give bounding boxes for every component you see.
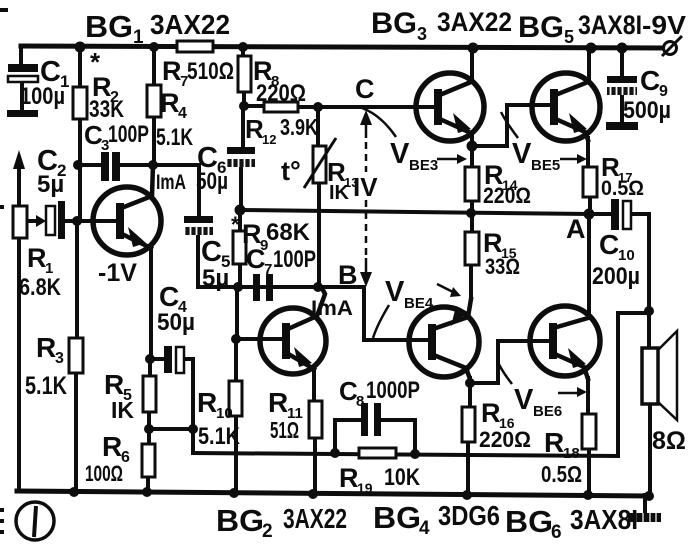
svg-text:R: R bbox=[339, 463, 359, 493]
svg-text:220Ω: 220Ω bbox=[256, 80, 306, 107]
svg-text:R: R bbox=[481, 398, 501, 428]
svg-text:6: 6 bbox=[551, 522, 562, 543]
svg-text:IV: IV bbox=[353, 172, 378, 202]
svg-text:C: C bbox=[599, 229, 619, 260]
svg-text:R: R bbox=[27, 243, 47, 273]
svg-text:IK: IK bbox=[329, 182, 350, 204]
svg-text:3: 3 bbox=[55, 350, 64, 367]
svg-text:6.8K: 6.8K bbox=[19, 274, 62, 301]
svg-text:10: 10 bbox=[216, 405, 233, 422]
svg-text:BG: BG bbox=[518, 11, 564, 44]
svg-text:18: 18 bbox=[563, 445, 580, 462]
svg-text:C: C bbox=[355, 74, 375, 104]
svg-text:R: R bbox=[160, 88, 180, 118]
svg-text:C: C bbox=[159, 281, 179, 312]
svg-text:BG: BG bbox=[505, 504, 553, 539]
svg-text:C: C bbox=[640, 65, 660, 96]
svg-text:-9V: -9V bbox=[642, 10, 687, 40]
svg-text:100P: 100P bbox=[273, 246, 316, 273]
svg-text:C: C bbox=[246, 244, 266, 274]
svg-text:V: V bbox=[512, 138, 532, 170]
svg-text:8Ω: 8Ω bbox=[652, 427, 686, 455]
svg-text:5µ: 5µ bbox=[202, 265, 229, 292]
svg-text:BG: BG bbox=[216, 503, 264, 538]
svg-text:V: V bbox=[385, 276, 405, 308]
svg-text:4: 4 bbox=[178, 105, 187, 122]
svg-text:3.9K: 3.9K bbox=[280, 114, 318, 140]
svg-text:R: R bbox=[197, 387, 217, 418]
svg-text:5.1K: 5.1K bbox=[198, 423, 241, 450]
svg-text:4: 4 bbox=[419, 518, 430, 539]
svg-text:3AX22: 3AX22 bbox=[437, 7, 512, 37]
svg-text:BG: BG bbox=[373, 500, 421, 535]
svg-text:10: 10 bbox=[618, 247, 635, 264]
svg-text:BG: BG bbox=[371, 7, 417, 40]
svg-text:*: * bbox=[231, 212, 240, 237]
svg-text:R: R bbox=[162, 56, 182, 86]
svg-text:BE6: BE6 bbox=[533, 403, 562, 420]
svg-text:R: R bbox=[268, 387, 288, 418]
svg-text:5.1K: 5.1K bbox=[25, 372, 67, 400]
svg-text:3AX8I: 3AX8I bbox=[578, 10, 642, 40]
svg-text:V: V bbox=[514, 384, 534, 416]
svg-text:BE3: BE3 bbox=[409, 157, 438, 174]
svg-text:B: B bbox=[338, 260, 358, 290]
svg-text:5.1K: 5.1K bbox=[156, 124, 193, 151]
svg-text:R: R bbox=[102, 431, 122, 462]
svg-text:-1V: -1V bbox=[98, 259, 137, 287]
svg-text:5: 5 bbox=[564, 27, 574, 47]
svg-text:3AX8I: 3AX8I bbox=[570, 504, 638, 535]
svg-text:33K: 33K bbox=[89, 96, 125, 123]
svg-text:0.5Ω: 0.5Ω bbox=[601, 177, 644, 200]
svg-text:5µ: 5µ bbox=[37, 171, 64, 198]
svg-text:R: R bbox=[104, 369, 124, 400]
svg-text:33Ω: 33Ω bbox=[485, 254, 520, 279]
svg-text:3: 3 bbox=[417, 24, 427, 44]
svg-text:68K: 68K bbox=[266, 219, 311, 246]
svg-text:C: C bbox=[201, 236, 222, 268]
svg-text:BG: BG bbox=[85, 9, 133, 44]
svg-text:100P: 100P bbox=[108, 121, 149, 148]
svg-text:V: V bbox=[390, 138, 410, 170]
svg-text:50µ: 50µ bbox=[157, 309, 195, 336]
svg-text:t°: t° bbox=[281, 156, 301, 186]
svg-text:3DG6: 3DG6 bbox=[438, 500, 500, 531]
svg-text:100Ω: 100Ω bbox=[85, 461, 123, 486]
svg-text:BE5: BE5 bbox=[531, 157, 560, 174]
svg-text:R: R bbox=[36, 332, 56, 363]
svg-text:220Ω: 220Ω bbox=[479, 427, 531, 452]
svg-text:7: 7 bbox=[264, 261, 272, 278]
svg-text:R: R bbox=[544, 427, 564, 458]
svg-text:8: 8 bbox=[356, 393, 364, 410]
svg-text:500µ: 500µ bbox=[623, 97, 671, 124]
svg-text:1: 1 bbox=[133, 27, 144, 48]
svg-text:0.5Ω: 0.5Ω bbox=[541, 461, 582, 487]
svg-text:A: A bbox=[566, 214, 586, 244]
svg-text:12: 12 bbox=[262, 132, 276, 147]
svg-text:19: 19 bbox=[357, 480, 373, 496]
svg-text:50µ: 50µ bbox=[196, 168, 228, 195]
svg-text:51Ω: 51Ω bbox=[270, 417, 299, 443]
svg-text:2: 2 bbox=[262, 521, 273, 542]
svg-text:1000P: 1000P bbox=[366, 377, 420, 404]
svg-text:ImA: ImA bbox=[311, 297, 353, 320]
svg-text:10K: 10K bbox=[384, 464, 421, 491]
svg-text:100µ: 100µ bbox=[20, 83, 65, 110]
svg-text:IK: IK bbox=[111, 397, 134, 423]
svg-text:BE4: BE4 bbox=[404, 295, 434, 312]
svg-text:ImA: ImA bbox=[156, 171, 186, 194]
svg-text:3AX22: 3AX22 bbox=[150, 9, 230, 40]
svg-text:200µ: 200µ bbox=[592, 263, 640, 290]
svg-text:220Ω: 220Ω bbox=[483, 183, 531, 208]
svg-text:510Ω: 510Ω bbox=[187, 58, 234, 85]
svg-text:3AX22: 3AX22 bbox=[283, 503, 347, 534]
